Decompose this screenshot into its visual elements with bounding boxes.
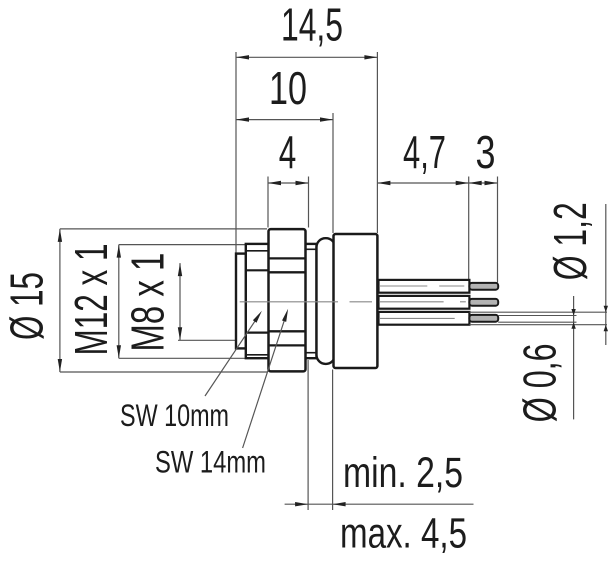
svg-text:4,7: 4,7: [403, 126, 446, 178]
M12 thread band with SW10 hex: [246, 244, 317, 358]
gasket: [317, 238, 336, 364]
svg-text:M12 x 1: M12 x 1: [65, 244, 117, 356]
thread relief line top (SW10 hex and washer): [246, 250, 269, 252]
O15 extension top: [60, 228, 267, 230]
pin 2: [469, 299, 498, 306]
dimension 14,5 line: [236, 56, 377, 58]
dimension min/max line: [285, 503, 474, 505]
wire 1 centerline: [380, 285, 464, 287]
wire 1: [379, 280, 470, 293]
centerline: [240, 301, 466, 303]
extension line hex right (x=308.5): [308, 177, 310, 228]
extension line pin end (x=497.5): [497, 177, 499, 283]
leader SW 14mm: [243, 313, 287, 449]
M8 front cylinder: [236, 254, 246, 349]
extension line flange front lower (x=332.6): [332, 370, 334, 511]
extension line flange rear (x=377.4): [376, 52, 378, 233]
extension line left (front face x=236): [235, 52, 237, 253]
M12 extension top: [119, 244, 245, 246]
dimension 10 line: [236, 119, 333, 121]
M12 extension bottom: [119, 357, 245, 359]
thread relief line bottom (SW10 hex and washer): [246, 354, 269, 356]
extension line hex left (x=268): [267, 177, 269, 228]
M8 extension bottom: [178, 339, 236, 341]
dimension M12x1 vertical line: [118, 245, 120, 359]
svg-text:M8 x 1: M8 x 1: [122, 253, 174, 352]
svg-text:min. 2,5: min. 2,5: [343, 450, 463, 497]
O15 extension bottom: [60, 371, 267, 373]
svg-text:4: 4: [279, 126, 297, 178]
pin 3: [469, 315, 498, 322]
dimension 4 line: [268, 182, 309, 184]
SW10 hex facet lines: [246, 269, 269, 271]
svg-text:Ø 15: Ø 15: [1, 272, 53, 340]
SW14 hex facet lines: [269, 257, 306, 259]
dimension 4,7 and 3 line: [377, 182, 497, 184]
svg-text:SW 14mm: SW 14mm: [155, 444, 266, 480]
svg-text:Ø 0,6: Ø 0,6: [514, 343, 566, 422]
wire 2: [379, 296, 470, 309]
svg-text:14,5: 14,5: [281, 0, 343, 51]
leader SW 10mm: [205, 314, 260, 396]
pin 1: [469, 283, 498, 290]
svg-text:SW 10mm: SW 10mm: [120, 397, 229, 433]
svg-text:max. 4,5: max. 4,5: [340, 511, 467, 558]
dimension O15 vertical line: [59, 229, 61, 372]
svg-text:10: 10: [269, 62, 307, 114]
extension line washer rear (x=308.1): [307, 360, 309, 510]
dimension O1,2 vertical line: [605, 204, 607, 345]
dimension O0,6 vertical line: [573, 296, 575, 419]
svg-text:Ø 1,2: Ø 1,2: [544, 202, 596, 280]
wire 3: [379, 312, 470, 325]
dimension M8x1 vertical line: [179, 263, 181, 340]
extension line wire end (x=468.7): [468, 177, 470, 280]
svg-text:3: 3: [476, 126, 496, 178]
SW14 hex nut: [269, 229, 306, 371]
mounting flange body: [334, 234, 378, 368]
pin 3 diameter extension lines: [498, 315, 576, 317]
extension line flange front (x=333): [332, 113, 334, 233]
wire 3 diameter extension lines: [469, 311, 607, 313]
wire 3 centerline: [380, 317, 455, 319]
